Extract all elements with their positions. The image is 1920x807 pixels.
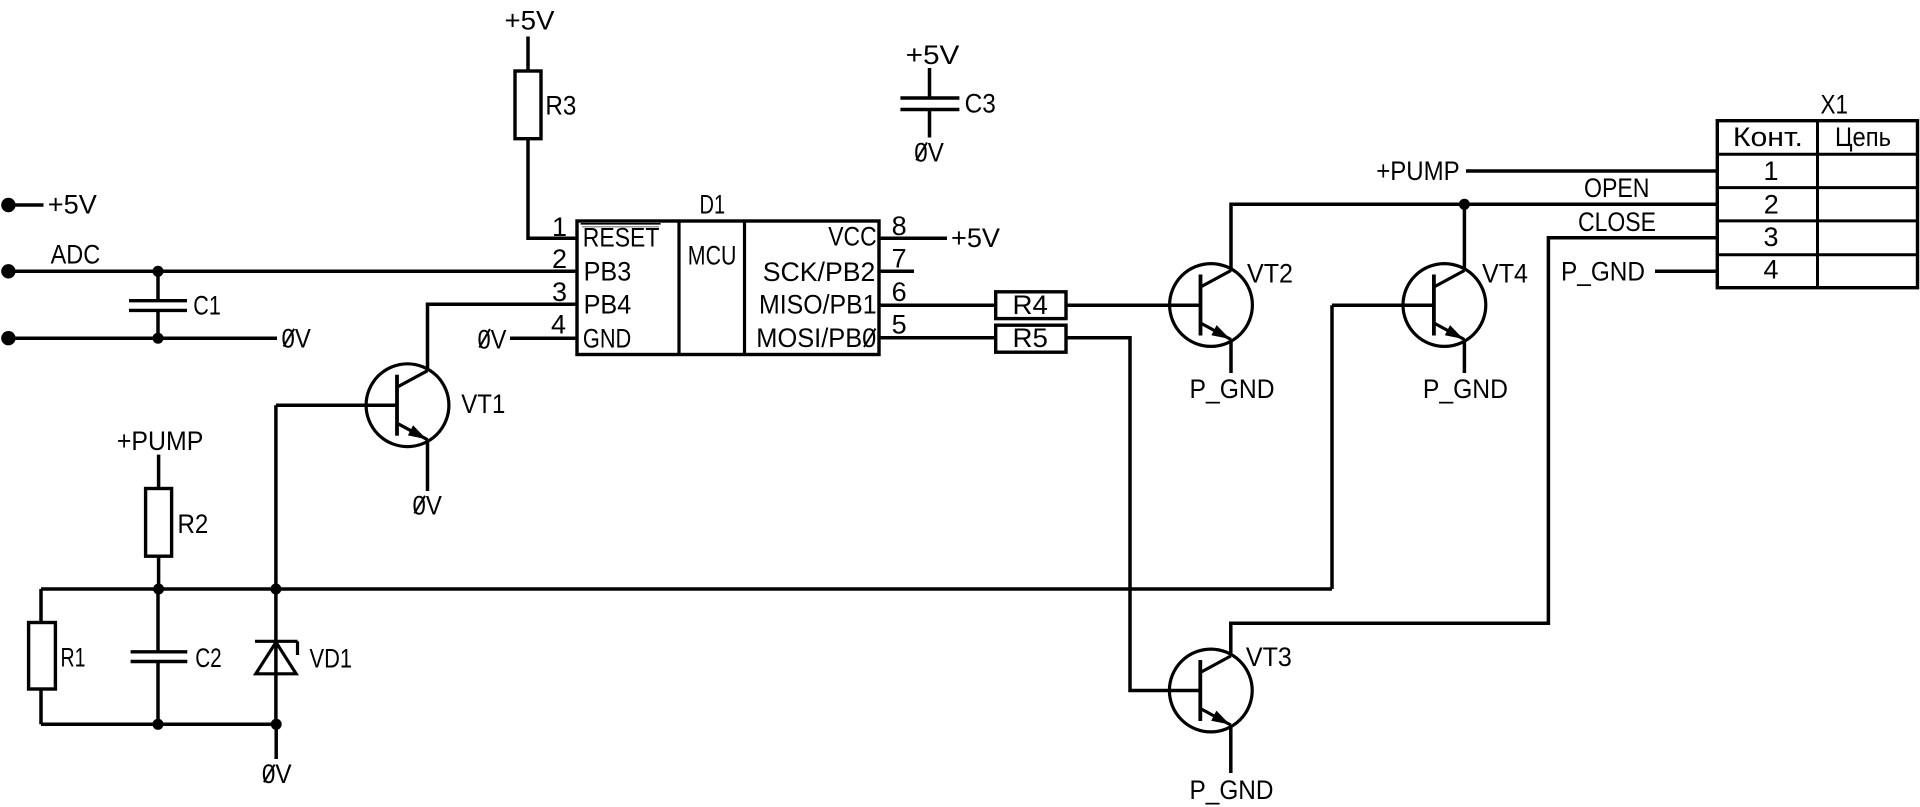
svg-text:0V: 0V: [413, 490, 442, 520]
svg-text:C3: C3: [965, 89, 996, 119]
svg-text:VT2: VT2: [1247, 259, 1293, 289]
svg-text:X1: X1: [1821, 90, 1849, 120]
svg-text:C2: C2: [195, 643, 222, 673]
svg-text:+5V: +5V: [906, 40, 960, 70]
svg-text:ADC: ADC: [51, 239, 101, 269]
svg-text:0V: 0V: [914, 137, 944, 167]
svg-text:P_GND: P_GND: [1561, 257, 1645, 287]
svg-text:MCU: MCU: [688, 240, 737, 270]
svg-text:SCK/PB2: SCK/PB2: [763, 257, 876, 287]
svg-text:0V: 0V: [262, 759, 292, 789]
svg-text:1: 1: [1763, 156, 1778, 186]
svg-text:+PUMP: +PUMP: [1376, 156, 1460, 186]
svg-text:P_GND: P_GND: [1190, 775, 1274, 805]
svg-text:GND: GND: [583, 323, 631, 353]
svg-text:MOSI/PB0: MOSI/PB0: [756, 323, 876, 353]
svg-text:2: 2: [1764, 190, 1779, 220]
svg-text:CLOSE: CLOSE: [1578, 207, 1656, 237]
svg-text:3: 3: [552, 277, 567, 307]
svg-text:5: 5: [892, 310, 907, 340]
svg-text:R5: R5: [1013, 323, 1048, 353]
svg-text:VT3: VT3: [1246, 642, 1292, 672]
svg-text:D1: D1: [700, 190, 726, 220]
svg-text:RESET: RESET: [583, 222, 660, 252]
svg-text:3: 3: [1763, 222, 1778, 252]
svg-text:MISO/PB1: MISO/PB1: [759, 290, 877, 320]
svg-text:R2: R2: [178, 509, 209, 539]
svg-text:PB4: PB4: [584, 289, 632, 319]
svg-text:C1: C1: [193, 291, 221, 321]
svg-text:+5V: +5V: [951, 223, 1000, 253]
svg-text:0V: 0V: [282, 324, 311, 354]
svg-text:R3: R3: [545, 91, 576, 121]
svg-text:0V: 0V: [478, 325, 507, 355]
svg-text:4: 4: [551, 310, 566, 340]
svg-text:VT1: VT1: [461, 389, 505, 419]
svg-text:VCC: VCC: [828, 222, 876, 252]
svg-text:+5V: +5V: [505, 6, 555, 36]
svg-text:2: 2: [552, 244, 567, 274]
svg-text:P_GND: P_GND: [1423, 374, 1508, 404]
svg-text:1: 1: [552, 212, 567, 242]
svg-text:R4: R4: [1013, 290, 1048, 320]
svg-text:P_GND: P_GND: [1190, 374, 1275, 404]
svg-text:Конт.: Конт.: [1733, 122, 1803, 152]
svg-text:7: 7: [892, 244, 907, 274]
svg-text:PB3: PB3: [584, 257, 632, 287]
svg-text:R1: R1: [61, 643, 86, 673]
svg-text:6: 6: [892, 277, 907, 307]
svg-text:VD1: VD1: [310, 644, 353, 674]
svg-text:+5V: +5V: [48, 190, 97, 220]
svg-text:OPEN: OPEN: [1584, 173, 1650, 203]
svg-text:4: 4: [1763, 255, 1778, 285]
svg-text:+PUMP: +PUMP: [117, 426, 203, 456]
svg-text:VT4: VT4: [1482, 259, 1528, 289]
svg-text:Цепь: Цепь: [1835, 122, 1891, 152]
svg-text:8: 8: [892, 211, 907, 241]
